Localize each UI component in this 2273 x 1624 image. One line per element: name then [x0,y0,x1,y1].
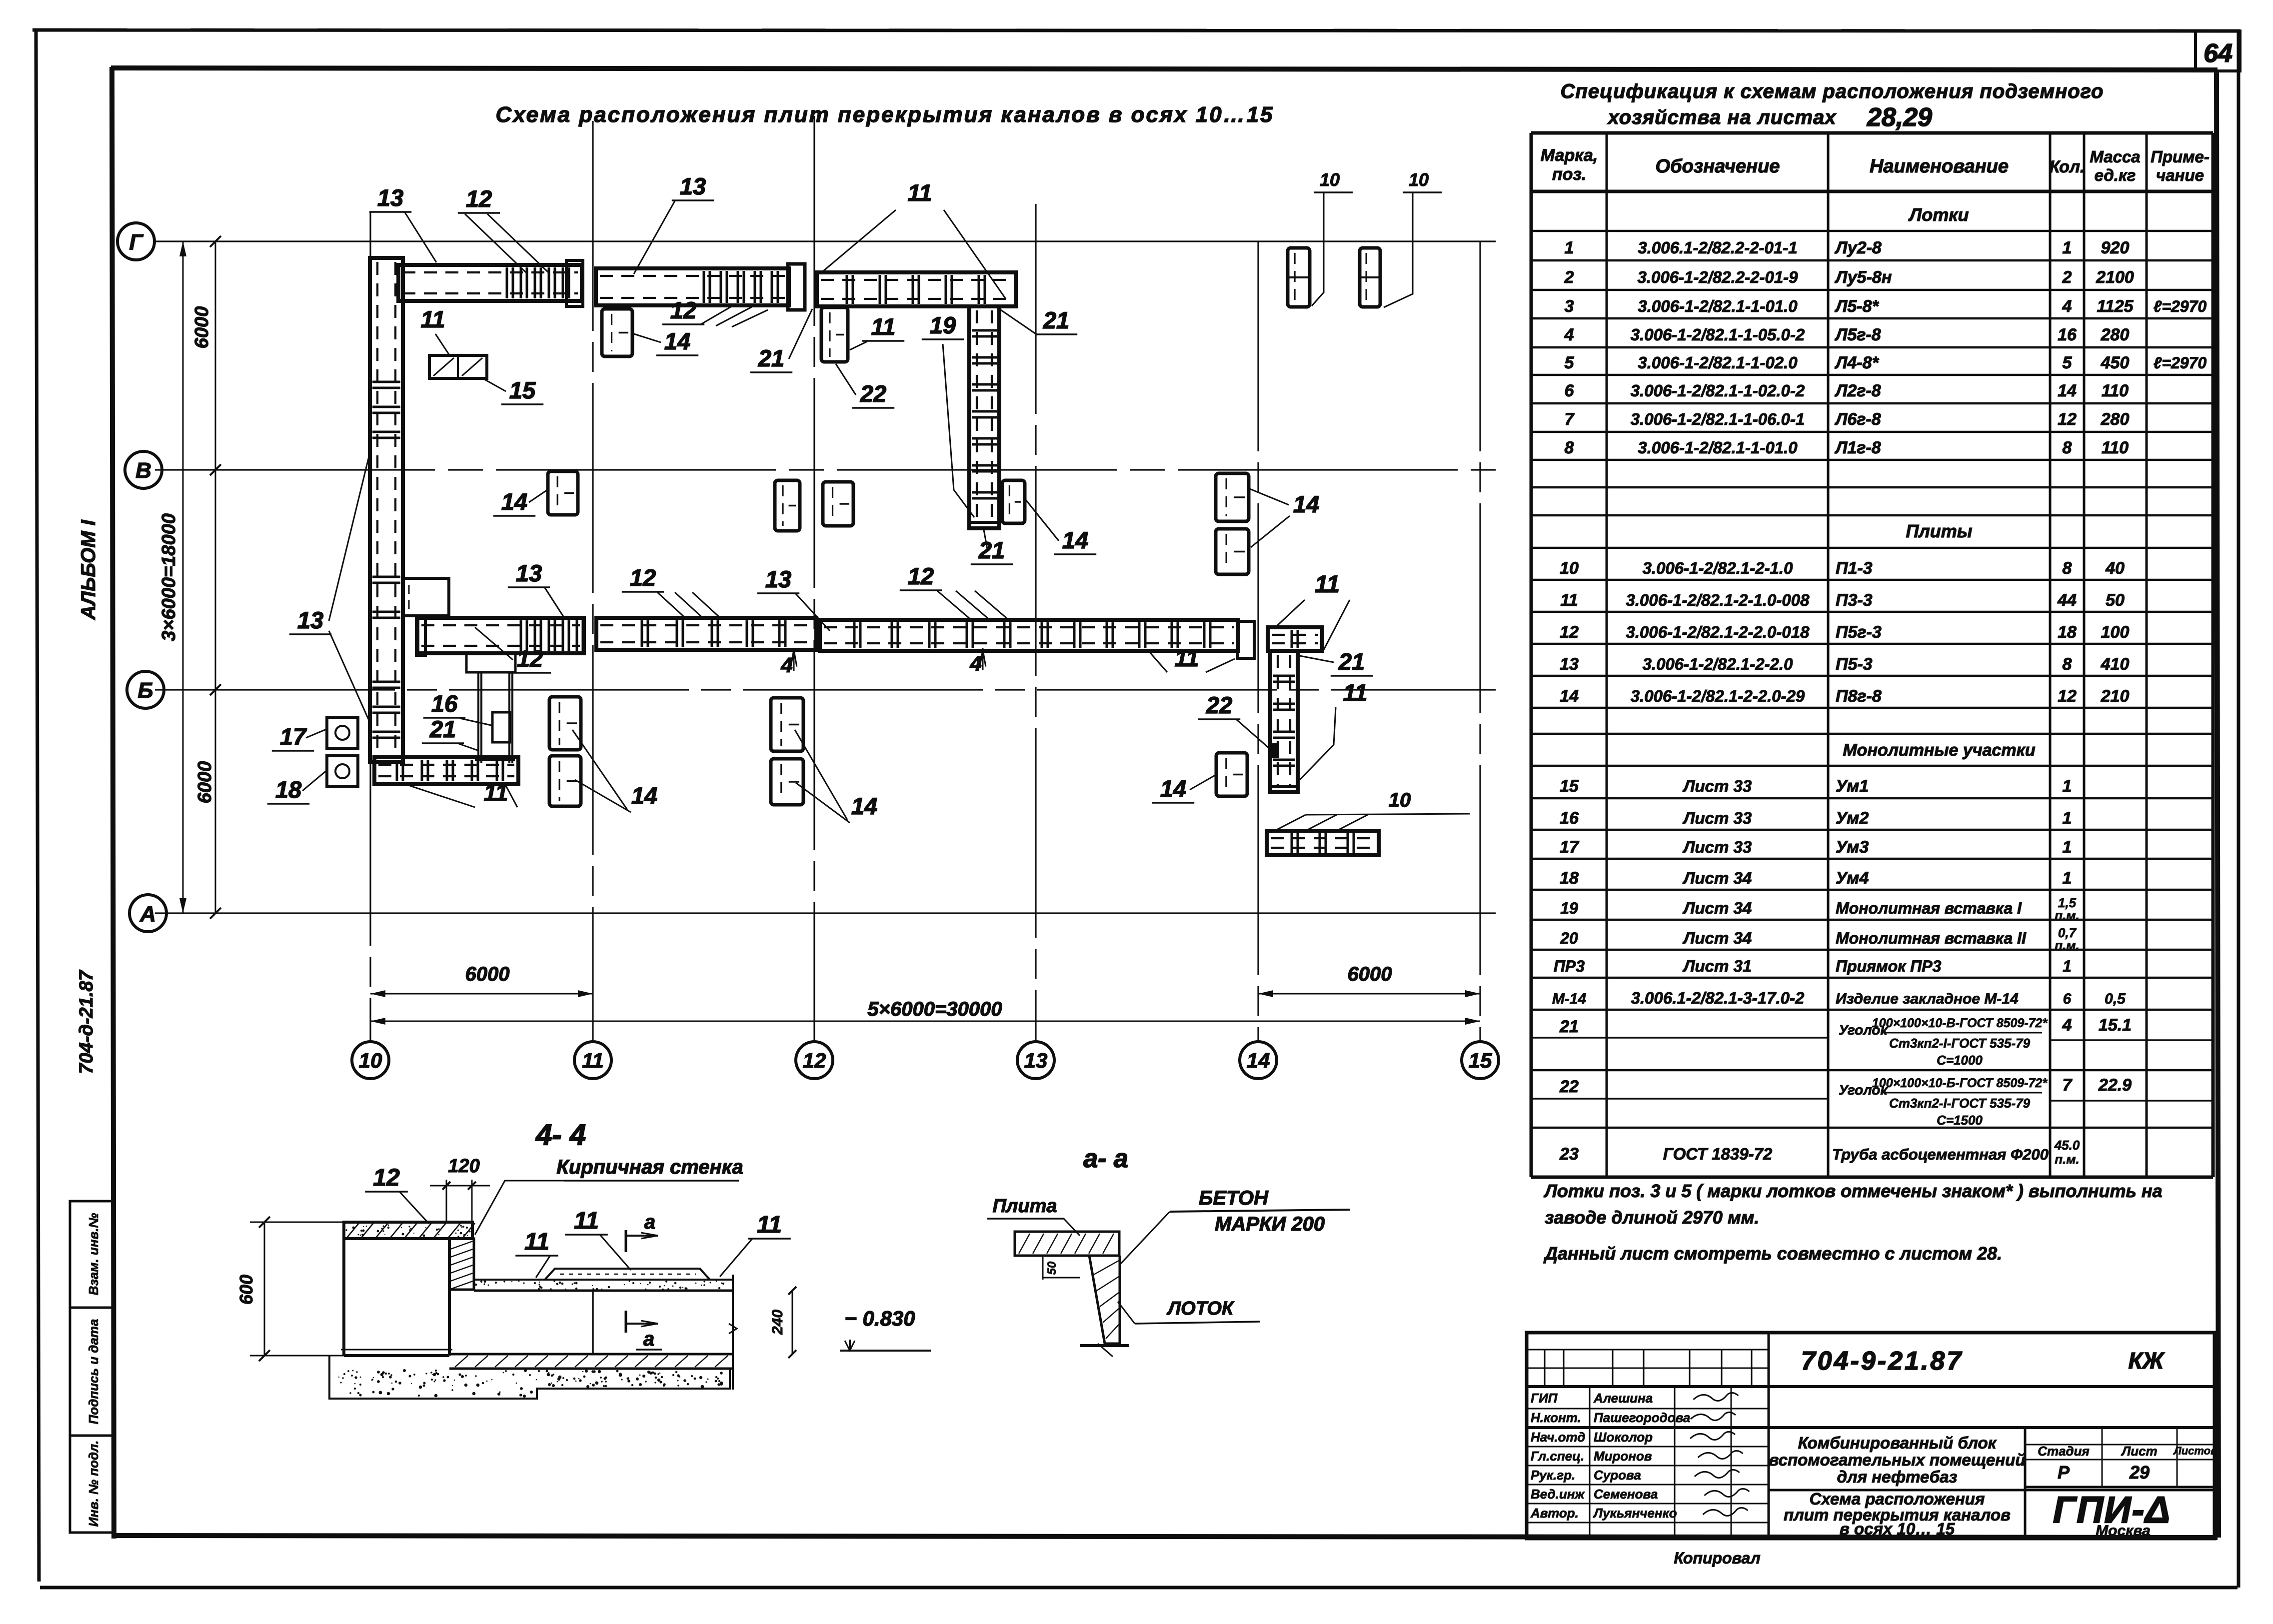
svg-text:11: 11 [524,1229,549,1255]
monolithic insert T-structure [466,653,515,672]
svg-text:Спецификация к схемам распо: Спецификация к схемам расположения подзе… [1561,80,2104,102]
svg-text:0,5: 0,5 [2105,991,2126,1007]
svg-text:14: 14 [2058,381,2077,400]
ground layer [329,1356,730,1399]
corner strip G horizontal (axis 14) [1268,627,1322,651]
svg-text:28,29: 28,29 [1867,103,1932,132]
svg-text:10: 10 [359,1049,382,1072]
svg-text:Кирпичная стенка: Кирпичная стенка [556,1156,743,1178]
svg-text:13: 13 [1024,1049,1048,1072]
svg-text:Лу2-8: Лу2-8 [1834,238,1882,257]
section channel box [342,1239,345,1356]
svg-text:3.006-1-2/82.1-2-2.0: 3.006-1-2/82.1-2-2.0 [1643,655,1794,673]
svg-text:Подпись и дата: Подпись и дата [86,1319,101,1425]
svg-text:11: 11 [1343,679,1368,706]
svg-text:280: 280 [2101,325,2130,344]
wall strip A vertical (axis 10) [370,258,403,762]
svg-text:3.006-1-2/82.1-2-2.0-29: 3.006-1-2/82.1-2-2.0-29 [1631,687,1805,705]
svg-text:8: 8 [1565,438,1574,457]
svg-text:920: 920 [2101,238,2130,257]
svg-text:Плита: Плита [992,1196,1057,1217]
svg-text:Стадия: Стадия [2038,1444,2090,1459]
svg-text:3.006.1-2/82.1-3-17.0-2: 3.006.1-2/82.1-3-17.0-2 [1631,989,1805,1007]
svg-text:Л4-8*: Л4-8* [1834,353,1879,372]
svg-text:16: 16 [431,690,458,717]
svg-text:Лист 34: Лист 34 [1683,869,1752,887]
plate 14 below B near 12 lower [771,759,803,805]
svg-text:Ст3кп2-I-ГОСТ 535-79: Ст3кп2-I-ГОСТ 535-79 [1889,1096,2031,1111]
axis line 13 [1035,204,1036,1041]
svg-text:12: 12 [373,1165,400,1191]
corner strip H vertical (axis 14) [1270,651,1298,792]
a-a base [1080,1344,1129,1347]
svg-text:6000: 6000 [465,963,510,985]
svg-text:3: 3 [1565,297,1574,316]
inner border frame [111,68,2218,70]
svg-text:Москва: Москва [2096,1523,2151,1539]
svg-text:Лист 33: Лист 33 [1683,838,1752,856]
svg-text:С=1000: С=1000 [1937,1053,1983,1068]
svg-text:11: 11 [1560,591,1578,610]
plate 11 under C-right [821,307,848,362]
monolithic strip D vertical (near axis 13) [969,306,999,528]
svg-text:− 0.830: − 0.830 [844,1307,915,1330]
margin stamp boxes [70,1201,114,1533]
svg-text:5×6000=30000: 5×6000=30000 [867,998,1002,1020]
svg-text:П5-3: П5-3 [1836,655,1873,674]
a-a small dims [1042,1256,1044,1280]
svg-text:45.0: 45.0 [2054,1138,2080,1153]
title block frame [1527,1333,2215,1539]
svg-text:Обозначение: Обозначение [1656,156,1780,177]
svg-text:В: В [135,458,151,483]
axis line 10 [369,212,371,1041]
svg-text:Ум1: Ум1 [1836,777,1869,796]
plate 15 with X [429,355,487,378]
svg-text:Лист 33: Лист 33 [1683,777,1752,795]
hatch leader for strip J [1275,815,1306,831]
svg-text:ГОСТ 1839-72: ГОСТ 1839-72 [1663,1145,1773,1163]
svg-text:19: 19 [930,312,956,338]
svg-text:Монолитные участки: Монолитные участки [1843,741,2035,760]
section plate 11 on top [545,1269,710,1280]
left dimension line segments [215,241,216,913]
svg-text:поз.: поз. [1552,165,1586,184]
plate 14 under C-left [602,309,632,356]
svg-text:Г: Г [129,230,143,254]
svg-text:3.006-1-2/82.2-2-01-9: 3.006-1-2/82.2-2-01-9 [1637,268,1798,286]
channel strip I (below B, 10-11) [374,757,518,784]
svg-text:М-14: М-14 [1552,991,1587,1007]
plate 14 below B near 11 upper [549,697,581,750]
left dimension line overall [182,241,184,913]
svg-text:чание: чание [2156,166,2204,184]
axis circle 10 [352,1042,389,1079]
svg-text:хозяйства на листах: хозяйства на листах [1607,106,1837,128]
svg-text:3×6000=18000: 3×6000=18000 [158,513,179,641]
svg-text:10: 10 [1560,559,1579,578]
svg-text:44: 44 [2057,591,2077,610]
svg-text:19: 19 [1560,899,1578,917]
axis line 15 [1479,241,1481,1041]
section bottom slab [449,1353,733,1356]
svg-text:64: 64 [2204,39,2233,68]
svg-text:Приме-: Приме- [2151,147,2210,166]
svg-text:8: 8 [2063,559,2072,578]
svg-text:7: 7 [2063,1076,2073,1095]
axis circle 14 [1240,1042,1277,1079]
svg-text:15: 15 [1469,1049,1492,1072]
svg-text:110: 110 [2102,381,2129,400]
svg-text:6000: 6000 [191,306,212,349]
svg-text:8: 8 [2063,438,2072,457]
svg-text:12: 12 [630,564,656,591]
svg-text:4- 4: 4- 4 [535,1119,586,1151]
svg-text:3.006-1-2/82.1-1-06.0-1: 3.006-1-2/82.1-1-06.0-1 [1631,410,1805,428]
axis line 11 [592,121,593,1041]
bottom dimension line 6000 left [370,993,593,995]
svg-text:Лист: Лист [2121,1444,2157,1459]
svg-text:21: 21 [429,716,456,742]
svg-text:5: 5 [1565,353,1575,372]
plate 14 below B near 11 lower [549,756,581,806]
svg-text:ГИП: ГИП [1531,1391,1558,1406]
svg-text:15: 15 [509,377,536,403]
svg-text:410: 410 [2101,655,2130,674]
svg-text:11: 11 [574,1208,599,1234]
svg-text:ℓ=2970: ℓ=2970 [2154,297,2207,315]
svg-text:3.006.1-2/82.2-2-01-1: 3.006.1-2/82.2-2-01-1 [1638,238,1797,257]
square 18 with circle [327,756,358,787]
svg-text:Рук.гр.: Рук.гр. [1531,1468,1575,1483]
svg-text:22: 22 [860,380,886,407]
svg-text:П1-3: П1-3 [1836,559,1873,578]
svg-text:210: 210 [2101,687,2130,706]
svg-text:4: 4 [2062,297,2072,316]
axis circle 12 [796,1042,833,1079]
svg-text:Шоколор: Шоколор [1594,1430,1653,1445]
svg-text:10: 10 [1409,169,1429,190]
svg-text:13: 13 [516,560,542,586]
svg-text:1125: 1125 [2097,297,2134,316]
section slab plate 12 [344,1222,472,1239]
angle mark 22 on strip H [1271,744,1278,757]
svg-text:17: 17 [1560,838,1580,857]
svg-text:Л6г-8: Л6г-8 [1834,410,1881,429]
svg-text:14: 14 [631,782,657,809]
svg-text:3.006-1-2/82.1-1-01.0: 3.006-1-2/82.1-1-01.0 [1638,297,1798,315]
svg-text:Автор.: Автор. [1530,1506,1579,1521]
svg-text:100×100×10-Б-ГОСТ 8509-72*: 100×100×10-Б-ГОСТ 8509-72* [1872,1076,2048,1090]
outer border frame [32,30,2240,31]
svg-text:6000: 6000 [194,761,215,804]
svg-text:17: 17 [280,723,307,750]
svg-text:КЖ: КЖ [2129,1348,2165,1374]
axis line A [155,912,1496,914]
svg-text:450: 450 [2101,353,2130,372]
svg-text:14: 14 [1293,491,1319,517]
svg-text:Нач.отд: Нач.отд [1531,1430,1585,1445]
svg-text:21: 21 [1559,1017,1579,1036]
svg-text:100×100×10-В-ГОСТ 8509-72*: 100×100×10-В-ГОСТ 8509-72* [1872,1016,2048,1030]
svg-text:1: 1 [2063,777,2072,796]
axis circle Г [117,223,154,260]
svg-text:Семенова: Семенова [1594,1487,1658,1502]
svg-text:ℓ=2970: ℓ=2970 [2154,354,2207,372]
svg-text:Лист 31: Лист 31 [1683,957,1752,975]
svg-text:14: 14 [1160,775,1186,802]
svg-text:Б: Б [137,678,153,703]
svg-text:13: 13 [377,184,403,211]
svg-text:14: 14 [501,488,527,515]
svg-text:14: 14 [851,793,877,819]
signature rows [1527,1446,1769,1448]
svg-text:12: 12 [2058,687,2077,706]
axis line 14 [1257,241,1259,1041]
svg-text:Изделие закладное М-14: Изделие закладное М-14 [1836,991,2019,1007]
plate 14 near 14-axis lower [1216,529,1249,574]
svg-text:А: А [139,902,156,926]
plate 14 near 14-axis upper [1216,473,1249,521]
strip F3 end cap [1237,621,1254,658]
svg-text:2: 2 [1564,268,1574,287]
svg-text:Лотки: Лотки [1908,204,1969,225]
svg-text:1: 1 [2063,869,2072,888]
svg-text:240: 240 [769,1310,786,1335]
svg-text:6: 6 [2063,991,2072,1007]
svg-text:14: 14 [664,328,690,354]
strip C1 end cap [788,264,805,310]
brick wall hatch [449,1239,474,1290]
svg-text:110: 110 [2102,438,2129,457]
svg-text:Миронов: Миронов [1594,1449,1652,1464]
svg-text:Сурова: Сурова [1594,1468,1641,1483]
svg-text:Монолитная вставка II: Монолитная вставка II [1836,929,2027,947]
svg-text:Кол.: Кол. [2050,157,2085,176]
svg-text:Р: Р [2058,1462,2070,1483]
svg-text:8: 8 [2063,655,2072,674]
channel strip B (axis G, 10-11) [398,265,582,301]
small grid top-left [1544,1350,1546,1387]
a-a leg [1089,1256,1120,1344]
svg-text:Гл.спец.: Гл.спец. [1531,1449,1584,1464]
svg-text:12: 12 [908,563,934,589]
axis circle 15 [1462,1042,1499,1079]
bottom dimension line 5x6000 [370,1021,1480,1022]
axis circle Б [127,671,164,708]
svg-text:5: 5 [2063,353,2073,372]
svg-text:а: а [644,1211,655,1233]
svg-text:280: 280 [2101,410,2130,429]
svg-text:заводе длиной 2970 мм.: заводе длиной 2970 мм. [1545,1207,1759,1228]
svg-text:12: 12 [670,297,696,323]
svg-text:40: 40 [2105,559,2125,578]
svg-text:Марка,: Марка, [1541,146,1598,165]
axis circle 13 [1017,1042,1054,1079]
svg-text:11: 11 [908,179,932,206]
svg-text:14: 14 [1247,1049,1270,1072]
svg-text:15.1: 15.1 [2099,1016,2132,1035]
svg-text:в осях 10… 15: в осях 10… 15 [1840,1520,1955,1538]
svg-text:Лу5-8н: Лу5-8н [1834,268,1892,287]
a-a slab [1015,1232,1119,1256]
svg-text:П8г-8: П8г-8 [1836,687,1882,706]
svg-text:Плиты: Плиты [1906,521,1972,541]
strip B end cap [566,260,583,306]
svg-text:1: 1 [2063,809,2072,828]
svg-text:20: 20 [1560,929,1578,947]
svg-text:ед.кг: ед.кг [2095,166,2136,184]
svg-text:Комбинированный блок: Комбинированный блок [1798,1434,1998,1452]
svg-text:Копировал: Копировал [1674,1549,1760,1567]
plate 14 below V near 11 [548,471,578,515]
svg-text:1: 1 [2063,238,2072,257]
svg-text:Лотки поз. 3 и 5 ( марки лот: Лотки поз. 3 и 5 ( марки лотков отмечены… [1543,1181,2163,1201]
svg-text:14: 14 [1062,527,1088,553]
svg-text:704-д-21.87: 704-д-21.87 [76,969,97,1074]
svg-text:3.006-1-2/82.1-1-02.0-2: 3.006-1-2/82.1-1-02.0-2 [1631,381,1805,400]
axis circle В [125,451,162,488]
svg-text:6000: 6000 [1348,963,1392,985]
svg-text:С=1500: С=1500 [1937,1113,1983,1128]
svg-text:50: 50 [2106,591,2125,610]
svg-text:7: 7 [1565,410,1575,429]
svg-text:п.м.: п.м. [2055,938,2080,953]
section top layer [474,1279,733,1281]
svg-text:600: 600 [236,1275,256,1305]
svg-text:18: 18 [2058,623,2077,642]
channel strip C2 (axis G, 12-13) [817,272,1016,306]
svg-text:3.006-1-2/82.1-1-01.0: 3.006-1-2/82.1-1-01.0 [1638,438,1798,457]
svg-text:АЛЬБОМ I: АЛЬБОМ I [77,519,99,620]
svg-text:Взам. инв.№: Взам. инв.№ [86,1213,101,1296]
bottom dimension line 6000 right [1258,993,1480,995]
svg-text:11: 11 [871,313,896,340]
svg-text:ПР3: ПР3 [1554,957,1585,975]
svg-text:1: 1 [2063,838,2072,857]
svg-text:21: 21 [1338,648,1365,675]
axis circle А [129,895,166,932]
svg-text:12: 12 [2058,410,2077,429]
svg-text:13: 13 [1560,655,1579,674]
axis line 12 [813,116,815,1041]
svg-text:12: 12 [803,1049,826,1072]
svg-text:11: 11 [1175,645,1199,671]
page number box 64 [2196,31,2240,71]
svg-text:3.006-1-2/82.1-1-05.0-2: 3.006-1-2/82.1-1-05.0-2 [1631,325,1805,344]
svg-text:Данный лист смотреть совмес: Данный лист смотреть совместно с листом … [1543,1243,2002,1264]
svg-text:Л2г-8: Л2г-8 [1834,381,1881,400]
svg-text:11: 11 [757,1212,782,1238]
svg-text:Вед.инж: Вед.инж [1531,1487,1585,1502]
axis line V [155,469,1496,470]
dim 240 [792,1291,793,1354]
svg-text:4: 4 [2062,1016,2072,1035]
channel strip F2 [596,618,816,650]
svg-text:Ум4: Ум4 [1836,869,1869,888]
svg-text:13: 13 [297,607,323,633]
svg-text:Ст3кп2-I-ГОСТ 535-79: Ст3кп2-I-ГОСТ 535-79 [1889,1036,2031,1051]
svg-text:а: а [643,1328,654,1350]
svg-text:Инв. № подл.: Инв. № подл. [86,1441,101,1527]
svg-text:Схема расположения плит: Схема расположения плит перекрытия канал… [495,102,1274,127]
svg-text:21: 21 [758,345,784,371]
svg-text:Ум3: Ум3 [1836,838,1869,857]
break mark right [732,1275,734,1390]
svg-text:Монолитная вставка I: Монолитная вставка I [1836,899,2022,917]
svg-text:22: 22 [1559,1077,1579,1096]
plate 14 below V pair b [823,482,853,526]
svg-text:3.006-1-2/82.1-2-2.0-018: 3.006-1-2/82.1-2-2.0-018 [1626,623,1810,641]
svg-text:вспомогательных помещений: вспомогательных помещений [1769,1451,2025,1469]
svg-text:4: 4 [1564,325,1574,344]
svg-text:П3-3: П3-3 [1836,591,1873,610]
svg-text:14: 14 [1560,687,1579,706]
plate 14 below V pair a [775,480,800,531]
channel strip F3 [820,620,1238,651]
plate block on strip A [403,578,449,616]
plate 14 below B near 12 upper [771,698,803,751]
svg-text:3.006-1-2/82.1-1-02.0: 3.006-1-2/82.1-1-02.0 [1638,353,1798,372]
title block top row line [1527,1385,2215,1388]
axis line B [155,689,1496,690]
svg-text:22.9: 22.9 [2098,1076,2132,1095]
svg-text:Лукьянченко: Лукьянченко [1593,1506,1677,1521]
svg-text:Л1г-8: Л1г-8 [1834,438,1881,457]
plate 10 upper right #1 [1288,248,1310,307]
svg-text:6: 6 [1565,381,1575,400]
svg-text:22: 22 [1206,692,1232,718]
svg-text:12: 12 [1560,623,1579,642]
svg-text:БЕТОН: БЕТОН [1199,1187,1269,1209]
dim 600 [264,1222,265,1356]
svg-text:100: 100 [2101,623,2130,642]
title block mid line [1527,1426,2215,1429]
svg-text:13: 13 [680,173,706,199]
svg-text:П5г-3: П5г-3 [1836,623,1882,642]
axis circle 11 [574,1042,611,1079]
plate 14 near H strip [1216,753,1247,796]
svg-text:16: 16 [1560,809,1579,828]
svg-text:1: 1 [2063,957,2072,975]
svg-text:12: 12 [466,185,492,212]
spec table grid [1531,131,2213,135]
svg-text:29: 29 [2129,1462,2150,1483]
svg-text:п.м.: п.м. [2055,908,2080,923]
channel strip J (bottom right, plate 10) [1267,831,1379,855]
svg-text:1: 1 [1565,238,1574,257]
cut mark a bottom [625,1311,627,1333]
svg-text:11: 11 [1315,571,1340,598]
svg-text:Л5г-8: Л5г-8 [1834,325,1881,344]
svg-text:15: 15 [1560,777,1579,796]
svg-text:50: 50 [1045,1261,1059,1275]
svg-text:Л5-8*: Л5-8* [1834,297,1879,316]
svg-text:2100: 2100 [2096,268,2134,287]
svg-text:МАРКИ 200: МАРКИ 200 [1215,1213,1325,1235]
svg-text:а- а: а- а [1083,1144,1128,1173]
svg-text:Лист 34: Лист 34 [1683,899,1752,917]
svg-text:Алешина: Алешина [1593,1391,1653,1406]
svg-text:Листов: Листов [2173,1445,2218,1457]
cut mark a top [625,1230,627,1252]
svg-text:3.006-1-2/82.1-2-1.0: 3.006-1-2/82.1-2-1.0 [1643,559,1794,577]
channel strip F1 (axis B-V middle, left) [417,618,584,653]
svg-text:п.м.: п.м. [2055,1152,2080,1167]
plate 10 upper right #2 [1360,248,1380,307]
svg-text:11: 11 [484,779,508,806]
plate 14 right of D [1002,480,1025,523]
